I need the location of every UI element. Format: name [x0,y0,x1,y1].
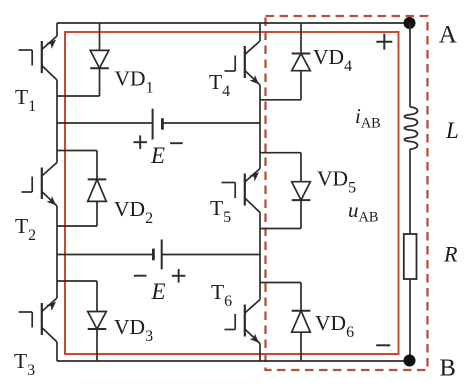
wire [162,122,260,124]
battery E2 [153,240,161,270]
wire [57,254,153,256]
svg-text:B: B [440,355,456,382]
wire [162,254,260,256]
label T1 [15,85,36,115]
label T4 [209,70,230,100]
svg-text:L: L [445,118,459,143]
transistor T3 [19,298,58,342]
label T5 [210,196,231,226]
label - (E1) [170,142,183,144]
node B [404,355,416,367]
wire [57,122,153,124]
wire [56,80,58,163]
label E2 [151,279,166,304]
wire [259,23,261,41]
label iAB [355,104,381,132]
wire [57,151,97,180]
diode VD4 [292,54,311,71]
wire [259,213,261,300]
wire [259,85,261,169]
transistor T6 [225,300,261,344]
label B [440,355,456,382]
label T3 [14,349,35,379]
label uAB [348,198,378,226]
diode VD3 [88,312,107,330]
label T2 [15,214,36,244]
node A [404,17,416,29]
wire [409,23,411,107]
diode VD2 [88,179,107,201]
wire [260,153,301,182]
wire [259,344,261,362]
label VD1 [115,67,154,97]
diode VD1 [90,50,109,68]
label + (output) [376,34,392,50]
label VD6 [315,311,354,341]
transistor T1 [19,36,58,80]
battery E1 [153,109,163,140]
label L [445,118,459,143]
label T6 [211,280,232,310]
wire [57,22,410,24]
wire [56,23,58,36]
wire [300,332,302,361]
inductor L [404,107,417,149]
label VD3 [114,315,153,345]
output port boundary (red dashed) [266,16,428,370]
label - (E2) [134,275,147,277]
wire [260,200,301,228]
svg-text:E: E [150,143,165,168]
wire [99,23,101,50]
wire [260,283,301,311]
transistor T2 [22,163,58,207]
label A [439,22,457,49]
svg-text:A: A [439,22,457,49]
cell boundary (red solid) [65,32,399,354]
wire [57,68,100,96]
wire [260,71,301,100]
svg-text:E: E [151,279,166,304]
wire [57,281,97,312]
label VD2 [114,197,153,227]
wire [57,360,410,362]
wire [57,201,97,226]
label + (E2) [172,269,186,283]
resistor R [404,234,417,279]
diode VD5 [292,182,311,200]
transistor T5 [222,169,261,213]
label - (output) [376,344,390,346]
label R [443,242,458,267]
transistor T4 [225,41,261,85]
diode VD6 [292,311,311,333]
svg-text:R: R [443,242,458,267]
label VD4 [313,45,352,75]
wire [56,206,58,298]
wire [56,342,58,361]
label E1 [150,143,165,168]
label + (E1) [133,135,147,149]
wire [409,279,411,361]
label VD5 [317,167,356,197]
wire [96,329,98,361]
wire [409,149,411,234]
wire [300,23,302,54]
